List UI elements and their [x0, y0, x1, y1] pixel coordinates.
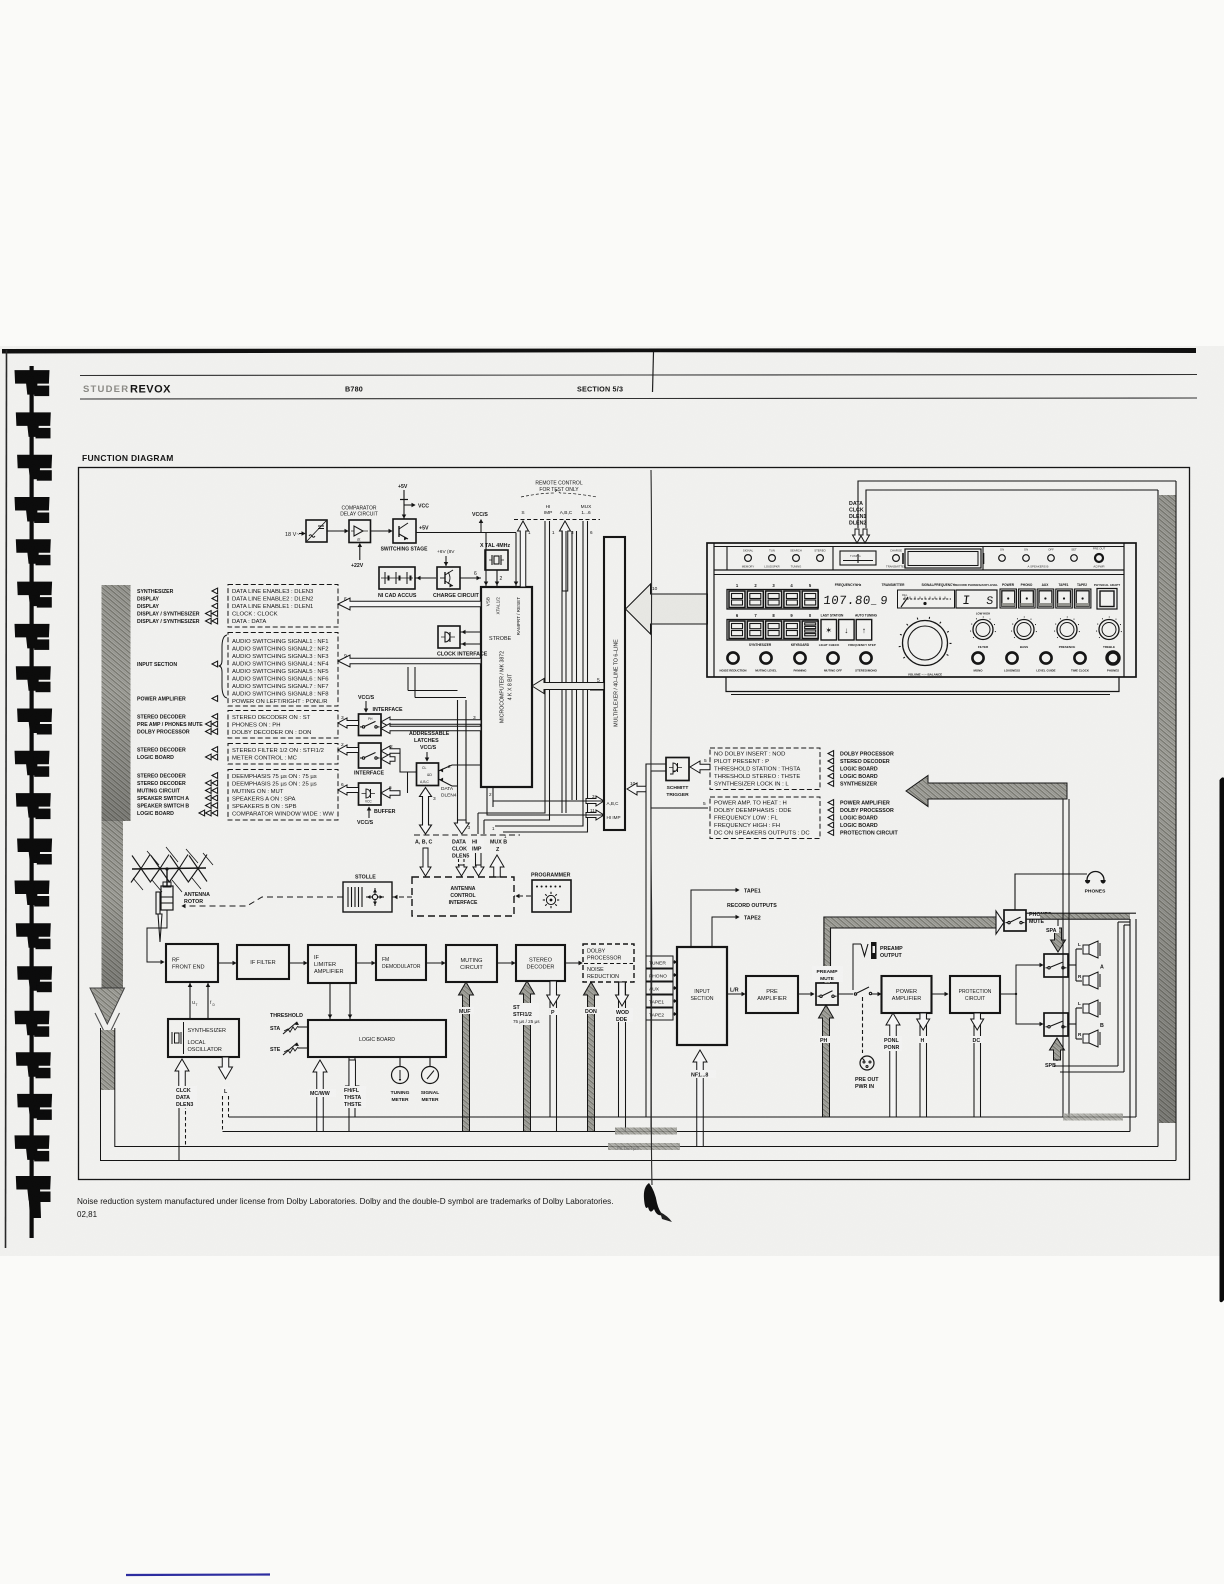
spiral binding comb — [15, 366, 53, 1238]
if filter box — [237, 945, 289, 979]
+6V 8V feed — [437, 549, 455, 566]
right page edge black strip — [1220, 777, 1224, 1302]
don arrow hatched up into dolby — [584, 982, 601, 1132]
wire mux left at 685 — [590, 689, 604, 691]
wire latches to IF2 loop — [400, 751, 416, 772]
power amplifier box — [882, 976, 932, 1013]
tone knobs row — [970, 612, 1122, 650]
+22V feed — [351, 544, 364, 570]
schmitt trigger box — [666, 758, 689, 781]
dashed box D6 status signals — [710, 748, 820, 790]
addressable latches box — [417, 763, 439, 786]
VCC/S tap — [472, 512, 488, 533]
crystal X1 — [485, 550, 508, 570]
interface box IF1 — [359, 714, 382, 736]
grey bar continuation wires to bus — [101, 1028, 125, 1161]
speaker switch B box — [1044, 1013, 1068, 1036]
scan grain overlay — [0, 346, 1224, 1256]
panel base plinth — [726, 677, 1119, 695]
antenna yagi sketch — [131, 847, 213, 892]
top strip knob charge — [886, 549, 906, 569]
tuning meter — [391, 1057, 410, 1103]
dashed box D1 data lines — [228, 585, 338, 628]
arrow HI IMP to antenna interface — [473, 853, 484, 876]
wire chain 6 — [565, 962, 582, 964]
page top border — [2, 348, 1196, 354]
arrow latches wire to buffer — [381, 788, 400, 798]
wire to transformer — [299, 533, 305, 535]
synthesizer local oscillator box — [168, 1019, 239, 1057]
h arrow down from power amp — [917, 1013, 930, 1117]
scratch tick near header — [653, 352, 654, 392]
arrow IF1 to dashed D3 — [338, 718, 359, 728]
wire — [327, 530, 348, 532]
hatched patches on bottom bus — [608, 1114, 1123, 1151]
row2 digit labels — [736, 613, 878, 618]
spa arrow hatched into switch A — [1046, 919, 1066, 952]
phones mute box — [1004, 910, 1026, 931]
left system labels group 1 — [137, 588, 218, 817]
tuning function buttons — [821, 620, 872, 641]
latches data wires from micro — [439, 764, 482, 786]
arrow D6 to schmitt — [690, 761, 710, 773]
bus line A — [229, 919, 1137, 1117]
speaker B left — [1078, 1000, 1100, 1017]
dashed wire aci to stolle — [392, 895, 412, 899]
remote arrow S — [518, 521, 529, 587]
labels ABC DATA CLOK DLEN5 HI IMP MUX B Z — [451, 838, 474, 859]
frequency display 107.80 9 — [823, 594, 889, 608]
wire crystal to micro pin 2 — [495, 570, 502, 586]
diagram outer frame — [79, 468, 1190, 1180]
wire charge to micro — [460, 571, 481, 580]
blue pen line bottom — [126, 1573, 270, 1576]
big hollow arrow right to dashed boxes — [906, 776, 1067, 807]
volume balance knob — [899, 617, 952, 677]
latches ABC vertical bus double arrow — [420, 788, 437, 835]
input source tags — [646, 956, 677, 1020]
bus link to NF arrow — [408, 667, 466, 698]
top loop wires panel to right bus — [858, 481, 1176, 528]
speaker A left — [1078, 941, 1100, 958]
bottom small knobs right — [972, 652, 1119, 673]
speaker switch A box — [1044, 954, 1068, 977]
remote dashed rail — [514, 519, 600, 521]
dashed box D3 stereo decoder signals — [228, 711, 338, 739]
remote dashed bracket — [521, 490, 597, 497]
antenna control interface dashed box — [412, 877, 514, 916]
micro bottom pins — [487, 787, 493, 807]
remote wires MUX — [583, 521, 593, 620]
VCC branch — [404, 503, 429, 509]
muting circuit box — [446, 945, 497, 982]
hatched feed to phones mute — [824, 911, 1004, 983]
wide DLEN5 bus down — [454, 700, 470, 834]
right hatched bar — [1159, 495, 1176, 1123]
mid vertical bus pair 1 — [545, 590, 550, 806]
muf arrow hatched — [458, 982, 474, 1132]
arrows latches to IF2 — [381, 746, 400, 756]
preamp mute box — [816, 983, 838, 1005]
+5V supply top — [398, 484, 408, 519]
arrow IF2 to dashed D4 — [338, 745, 359, 755]
antenna rotor body — [156, 882, 173, 942]
D6 destination labels — [828, 751, 894, 788]
arrow DLEN5 to antenna interface — [456, 859, 467, 876]
L arrow out of synthesizer — [219, 1057, 233, 1132]
programmer box — [532, 880, 571, 912]
+5V rail from switching stage — [416, 526, 516, 533]
wire chain 5 — [497, 962, 515, 964]
comparator delay circuit box — [349, 520, 371, 543]
preset keypad row 1 — [727, 590, 818, 610]
speaker b loop to right bus — [1054, 922, 1130, 1072]
wires schmitt down to bus — [646, 790, 651, 1132]
arrow MUX B Z from antenna interface — [490, 855, 504, 877]
fm demodulator box — [376, 945, 426, 980]
speaker B right — [1078, 1023, 1104, 1047]
runs to MUX B Z arrows — [492, 820, 588, 839]
output node wires to speaker switches — [1000, 963, 1043, 1026]
dashed wire programmer to aci — [514, 894, 531, 898]
run micro to mux ABC — [493, 800, 604, 802]
pre amplifier box — [746, 976, 798, 1013]
big hollow arrow panel to multiplexer — [626, 584, 708, 634]
headphone jack icon — [1085, 872, 1106, 895]
mid vertical bus pair 3 — [583, 620, 588, 826]
stereo decoder box — [516, 945, 565, 981]
preset display 1 S — [956, 590, 997, 608]
if limiter amplifier box — [308, 945, 356, 983]
rotor feed to rf front end — [147, 910, 167, 962]
AC DC converter T1 — [306, 520, 327, 542]
bus line D — [101, 481, 1177, 1161]
dolby processor dashed box — [583, 944, 634, 982]
mux input arrows ABC and HI IMP — [586, 794, 621, 820]
wires switch B to speakers — [1068, 1008, 1082, 1039]
label preamp mute — [812, 966, 843, 982]
panel top strip frame — [714, 547, 1124, 575]
mid vertical bus pair 2 — [562, 531, 566, 813]
input section box — [677, 947, 727, 1045]
brace for input section rows — [219, 635, 228, 698]
signal meter — [421, 1057, 439, 1103]
VCC/S feed IF1 — [358, 695, 375, 712]
dashed box D7 control signals — [710, 797, 820, 839]
arrow buffer to dashed D5 — [338, 785, 359, 795]
signal meter strip — [898, 590, 955, 608]
clock interface box — [438, 626, 460, 648]
header rule bottom — [80, 398, 1197, 399]
HI IMP wire pair down — [478, 813, 484, 834]
runs to HI IMP arrows — [478, 806, 550, 820]
arrow ABC to antenna interface — [420, 848, 431, 876]
speaker A right — [1078, 965, 1104, 990]
dashed box D2 audio switching — [228, 633, 338, 707]
phones adaptor button — [1097, 589, 1117, 610]
fh fl thsta thste arrow down — [343, 1057, 366, 1132]
nf arrow into input section — [690, 1050, 716, 1147]
preamp output connector — [853, 942, 903, 990]
grey highlight bar left — [90, 585, 131, 1038]
long vertical scratch mark — [651, 470, 652, 1185]
wire chain 1 — [218, 962, 236, 964]
wires rf to synthesizer — [188, 982, 215, 1019]
header rule top — [80, 375, 1197, 376]
schmitt loop to D7 — [651, 771, 708, 808]
arrows micro to IF1 — [381, 717, 481, 727]
phones line to right bus — [1026, 913, 1136, 919]
lr wire input to preamp — [727, 988, 745, 996]
stolle box — [343, 882, 392, 912]
rotor control dashed line — [182, 897, 343, 908]
VCC/S feed buffer — [357, 807, 374, 826]
source select buttons — [1000, 589, 1091, 608]
strobe wires micro to clock interface — [460, 630, 481, 646]
big arrow feed down to bus A — [1063, 799, 1069, 1117]
ph arrow hatched into preamp mute — [819, 1005, 834, 1117]
wod dde arrow down from dolby — [615, 982, 633, 1132]
remote wires HI IMP — [545, 521, 555, 590]
spb arrow hatched into switch B — [1045, 1038, 1065, 1069]
protection circuit box — [950, 976, 1000, 1013]
st stfi arrow hatched up into stereo decoder — [512, 981, 540, 1132]
pre out power in switch — [838, 987, 881, 1090]
wires if limiter to logic board — [328, 983, 352, 1019]
p arrow down from stereo decoder — [547, 981, 560, 1132]
ponl ponr arrow into power amp — [883, 1013, 902, 1117]
top strip tuning window — [840, 551, 876, 565]
hollow arrow mux to microcomputer 5 — [532, 679, 604, 694]
bus arrow DLEN 6 lines — [338, 598, 481, 610]
wire chain 4 — [426, 962, 445, 964]
microcomputer U1 MK3872 — [481, 587, 532, 787]
clck data dlen3 arrow into synthesizer — [175, 1059, 197, 1161]
dashed box D4 stereo filter — [228, 744, 338, 765]
run micro to mux HI IMP — [487, 801, 604, 815]
wire power amp to protection — [932, 993, 949, 995]
dashed box D5 deemphasis muting — [228, 770, 338, 821]
top strip right knobs — [999, 547, 1106, 569]
arrows into panel top — [853, 529, 870, 543]
top strip small knobs left — [742, 549, 827, 569]
bottom small knobs left — [720, 652, 878, 672]
panel face tiny label row — [736, 583, 1120, 588]
wire — [371, 530, 393, 532]
bus line B — [223, 919, 1131, 1132]
threshold pots — [270, 1013, 307, 1055]
wire chain 3 — [356, 962, 375, 964]
switching stage Q1 — [393, 519, 416, 543]
schmitt output to multiplexer arrow 10 — [627, 764, 666, 795]
logic board box — [308, 1020, 446, 1057]
front panel outer body — [707, 543, 1136, 677]
top strip cassette window — [903, 549, 984, 568]
stereo decoder to dolby wire — [565, 962, 582, 964]
buffer box IF3 — [359, 783, 382, 805]
bus line C — [115, 490, 1158, 1147]
dashed separator line above labels — [414, 834, 520, 836]
bus arrow NF 9 lines — [338, 655, 481, 667]
Ni Cad accus battery — [379, 567, 415, 589]
wire chain 2 — [289, 962, 307, 964]
wire phones mute to jack — [1015, 874, 1087, 910]
rf front end box — [166, 944, 218, 982]
remote arrow ABC — [560, 521, 571, 591]
mc ww arrow up into logic board — [309, 1060, 336, 1132]
record outputs tape1 tape2 — [691, 888, 777, 947]
wire preamp to mute — [798, 993, 814, 995]
charge circuit Q2 — [437, 567, 460, 589]
mid vertical bus pair 4 — [572, 531, 577, 800]
page left border line — [6, 350, 7, 1248]
preset keypad row 2 — [727, 620, 818, 641]
panel left side cap — [713, 543, 715, 677]
multiplexer box 40-line to 6-line — [604, 537, 625, 830]
D7 destination labels — [828, 800, 898, 837]
rail drops into microcomputer — [484, 533, 518, 587]
interface box IF2 — [359, 743, 382, 768]
wire accus charge — [415, 576, 436, 580]
wires switch A to speakers — [1068, 949, 1082, 981]
panel right side cap — [1123, 543, 1125, 677]
vcc feed latches — [425, 752, 429, 761]
dc arrow down from protection — [971, 1013, 984, 1117]
